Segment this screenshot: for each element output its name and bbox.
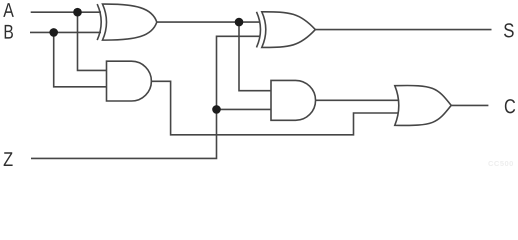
svg-text:CC500: CC500 (488, 159, 514, 168)
svg-text:B: B (3, 22, 13, 44)
svg-text:A: A (3, 0, 14, 22)
svg-text:C: C (504, 96, 516, 118)
svg-text:Z: Z (3, 149, 13, 171)
svg-text:S: S (503, 20, 514, 42)
